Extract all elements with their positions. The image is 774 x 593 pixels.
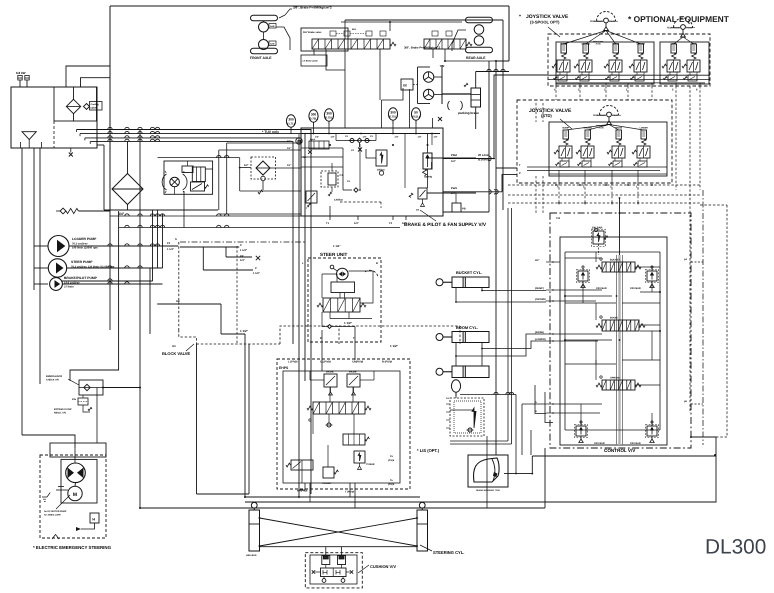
svg-text:PB: PB: [462, 208, 466, 211]
svg-text:MR.MB: MR.MB: [326, 371, 334, 374]
svg-text:6.8 kW: 6.8 kW: [16, 71, 26, 75]
svg-text:(P/V)8: (P/V)8: [388, 459, 395, 462]
svg-text:H: H: [92, 518, 95, 522]
svg-text:(0.75L): (0.75L): [388, 115, 397, 119]
svg-text:(3)kW: (3)kW: [91, 107, 98, 110]
svg-text:safety: safety: [424, 175, 433, 179]
svg-text:STEER UNIT: STEER UNIT: [320, 252, 348, 257]
svg-text:HSS+SHD: HSS+SHD: [246, 554, 257, 557]
svg-text:1/4": 1/4": [354, 222, 360, 225]
svg-text:Kick-down: Kick-down: [593, 114, 606, 117]
svg-text:76.3 cm3/rev: 76.3 cm3/rev: [72, 243, 88, 246]
svg-text:SB: SB: [176, 300, 180, 303]
svg-text:C1: C1: [340, 174, 344, 177]
svg-text:1 1/4": 1 1/4": [333, 244, 341, 248]
svg-text:1/2": 1/2": [244, 164, 249, 167]
svg-text:XXX BAR: XXX BAR: [596, 287, 607, 290]
svg-text:1/4": 1/4": [434, 136, 438, 139]
svg-text:70 98: 70 98: [595, 43, 601, 46]
svg-text:Horn: Horn: [687, 27, 693, 30]
svg-text:BUMP: BUMP: [562, 127, 569, 130]
svg-text:1 1/2": 1 1/2": [253, 272, 261, 275]
svg-text:L (P/V)8: L (P/V)8: [288, 361, 298, 364]
svg-text:LOWER: LOWER: [637, 43, 646, 46]
svg-text:(0.5L): (0.5L): [412, 115, 420, 119]
svg-text:(RAISE): (RAISE): [535, 331, 544, 334]
svg-text:for 30SEC LIMIT: for 30SEC LIMIT: [44, 514, 61, 517]
svg-text:70 BAR: 70 BAR: [366, 463, 375, 466]
svg-text:RLY Brake valve: RLY Brake valve: [303, 31, 322, 34]
svg-text:CR(P/V)8: CR(P/V)8: [352, 361, 364, 364]
svg-text:REGU. V/V: REGU. V/V: [54, 412, 66, 415]
svg-text:BRAKE & PILOT & FAN SUPPLY V/V: BRAKE & PILOT & FAN SUPPLY V/V: [404, 222, 487, 228]
svg-text:Horn: Horn: [610, 20, 616, 23]
svg-text:M: M: [73, 492, 77, 498]
svg-text:OPRION: OPRION: [610, 377, 620, 380]
svg-text:CROWD: CROWD: [583, 127, 592, 130]
svg-text:BOOM: BOOM: [610, 317, 617, 320]
svg-text:RAISE: RAISE: [615, 127, 622, 130]
svg-text:Horn: Horn: [613, 114, 619, 117]
svg-text:CROWD: CROWD: [581, 43, 590, 46]
svg-text:BOOM CYL.: BOOM CYL.: [456, 325, 478, 330]
svg-text:3/4": 3/4": [535, 259, 539, 262]
svg-text:(P/V)8: (P/V)8: [388, 483, 395, 486]
svg-text:* OPTIONAL EQUIPMENT: * OPTIONAL EQUIPMENT: [628, 14, 730, 24]
svg-text:1 1/2": 1 1/2": [390, 344, 399, 348]
svg-text:CHECK V/V: CHECK V/V: [46, 379, 59, 382]
svg-text:(1.7L): (1.7L): [287, 122, 295, 126]
svg-text:Kick-down: Kick-down: [667, 27, 680, 30]
svg-text:Cooling: Cooling: [91, 103, 100, 106]
svg-text:1/4": 1/4": [287, 147, 291, 150]
svg-text:CONTROL V/V: CONTROL V/V: [604, 448, 636, 453]
svg-text:REAR AXLE: REAR AXLE: [466, 56, 486, 60]
svg-text:LOADER PUMP: LOADER PUMP: [72, 237, 97, 241]
svg-text:DL300: DL300: [705, 536, 766, 559]
svg-text:FRONT AXLE: FRONT AXLE: [250, 56, 272, 60]
svg-text:for DC MOTOR PUMP: for DC MOTOR PUMP: [44, 510, 67, 513]
svg-text:1/4": 1/4": [402, 222, 408, 225]
svg-text:MR.MB: MR.MB: [349, 371, 357, 374]
svg-text:(3-SPOOL OPT): (3-SPOOL OPT): [530, 20, 560, 25]
svg-text:1/4": 1/4": [287, 164, 291, 167]
svg-text:RAISE: RAISE: [612, 43, 619, 46]
svg-text:XXX BAR: XXX BAR: [594, 442, 605, 445]
svg-text:P: P: [240, 244, 242, 247]
svg-text:Kick-down: Kick-down: [590, 20, 603, 23]
svg-text:(0.75L): (0.75L): [309, 117, 318, 121]
svg-text:PP: PP: [240, 255, 244, 258]
svg-text:70 98: 70 98: [598, 127, 604, 130]
svg-text:3/8", Brake P=4040kg/cm"2: 3/8", Brake P=4040kg/cm"2: [293, 6, 332, 10]
svg-text:3/4: 3/4: [172, 345, 176, 348]
svg-text:1/4": 1/4": [287, 140, 291, 143]
svg-text:Pilot: Pilot: [451, 153, 457, 157]
svg-text:20 L/min: 20 L/min: [478, 153, 490, 157]
svg-text:EHPS: EHPS: [279, 366, 289, 370]
svg-text:* ELECTRIC EMERGENCY STEERI: * ELECTRIC EMERGENCY STEERING: [33, 545, 112, 550]
svg-text:XXX BAR: XXX BAR: [630, 287, 641, 290]
svg-text:1 1/2": 1 1/2": [240, 329, 249, 333]
svg-text:XXX BAR: XXX BAR: [630, 442, 641, 445]
svg-text:OPT: OPT: [691, 43, 696, 46]
svg-text:1/4": 1/4": [315, 136, 319, 139]
svg-text:Lyna: Lyna: [310, 138, 316, 141]
svg-text:STEERING CYL.: STEERING CYL.: [433, 550, 464, 555]
svg-text:1 1/4": 1 1/4": [167, 248, 175, 251]
svg-text:BUCKET: BUCKET: [610, 259, 621, 262]
svg-text:1/4": 1/4": [451, 160, 457, 163]
svg-text:1/4": 1/4": [418, 136, 422, 139]
svg-text:(0.75L): (0.75L): [324, 116, 333, 120]
svg-text:auto screw: auto screw: [593, 40, 604, 43]
svg-text:STEER PUMP: STEER PUMP: [71, 260, 93, 264]
svg-text:1/4": 1/4": [363, 136, 367, 139]
svg-text:(DUMP): (DUMP): [535, 287, 544, 290]
svg-text:LOWER: LOWER: [640, 127, 649, 130]
svg-text:CL(P/V)8: CL(P/V)8: [320, 361, 331, 364]
svg-text:3/8", Brake P=4040kg/cm"2: 3/8", Brake P=4040kg/cm"2: [404, 46, 440, 50]
svg-text:1 1/2": 1 1/2": [344, 321, 353, 325]
svg-text:GAB: GAB: [270, 43, 275, 46]
svg-text:BLOCK VALVE: BLOCK VALVE: [162, 351, 190, 356]
svg-text:Park: Park: [451, 186, 458, 190]
svg-text:SPADE WORKING TYPE: SPADE WORKING TYPE: [476, 489, 500, 492]
svg-text:1/4": 1/4": [331, 136, 335, 139]
svg-text:CUSHION V/V: CUSHION V/V: [370, 564, 396, 569]
svg-text:1 1/4": 1 1/4": [240, 249, 248, 252]
svg-text:1300bar: 1300bar: [334, 199, 343, 202]
svg-text:(LOWER): (LOWER): [535, 338, 546, 341]
svg-text:*: *: [519, 14, 521, 20]
svg-text:T20: T20: [556, 217, 561, 220]
svg-text:T/M B/UP: T/M B/UP: [322, 482, 332, 485]
svg-text:1/4": 1/4": [240, 259, 246, 262]
svg-text:* TUV only: * TUV only: [262, 130, 279, 134]
svg-text:1/4": 1/4": [395, 136, 399, 139]
svg-text:BUCKET CYL.: BUCKET CYL.: [456, 270, 482, 275]
svg-text:* LIS (OPT.): * LIS (OPT.): [417, 448, 440, 453]
svg-text:LH Brake pedal: LH Brake pedal: [303, 60, 319, 63]
svg-text:BRAKE/PILOT PUMP: BRAKE/PILOT PUMP: [64, 276, 98, 280]
svg-text:OPT: OPT: [671, 43, 676, 46]
svg-text:190 l/min @2000 rpm: 190 l/min @2000 rpm: [72, 247, 98, 250]
svg-text:P: P: [519, 172, 521, 175]
svg-text:GAB: GAB: [270, 25, 275, 28]
svg-text:P: P: [255, 267, 257, 270]
svg-text:(CROWD): (CROWD): [535, 298, 546, 301]
svg-text:R (P/V)8: R (P/V)8: [382, 361, 393, 364]
svg-text:R: R: [376, 262, 378, 265]
svg-text:S: S: [175, 238, 177, 241]
svg-text:20u: 20u: [72, 398, 77, 401]
svg-text:auto screw: auto screw: [596, 124, 607, 127]
svg-text:BUMP: BUMP: [560, 43, 567, 46]
svg-text:37 l/min: 37 l/min: [64, 286, 74, 289]
svg-text:P1: P1: [167, 242, 171, 245]
